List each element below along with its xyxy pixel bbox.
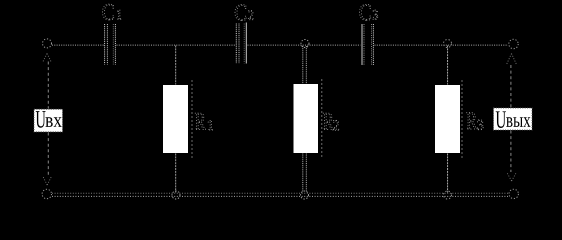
junction dot bottom R2 [301,191,309,199]
label C1 [103,4,122,20]
node: input terminal bottom-left [42,189,51,198]
wire bottom rail [52,193,508,196]
junction dot top R2 [301,40,309,48]
wire resistor R2 vertical [303,46,307,192]
label R3 [467,113,484,130]
label box Uvyx (output voltage) [494,108,533,130]
node: output terminal top-right [509,39,518,48]
Uvyx annotation dashed line with arrows [507,54,517,182]
label C2 [235,5,253,21]
node: output terminal bottom-right [509,189,518,198]
resistor R1 body [163,85,188,153]
wire top rail [52,44,508,46]
wire resistor R3 vertical [447,46,449,193]
resistor R3 body [435,85,460,153]
junction dot top R3 [444,40,452,48]
label C3 [360,4,378,20]
resistor R2 body [294,84,319,153]
Uvx annotation dashed line with arrows [43,54,51,186]
junction dot bottom R1 [172,191,180,199]
capacitor C3 [362,24,373,65]
label R1 [195,113,213,130]
node: input terminal top-left [43,39,52,48]
capacitor C2 [236,23,246,64]
label box Uvx (input voltage) [34,109,63,132]
label R2 [323,113,338,130]
capacitor C1 [105,24,116,65]
junction dot bottom R3 [444,191,452,199]
wire resistor R1 vertical [175,46,177,193]
